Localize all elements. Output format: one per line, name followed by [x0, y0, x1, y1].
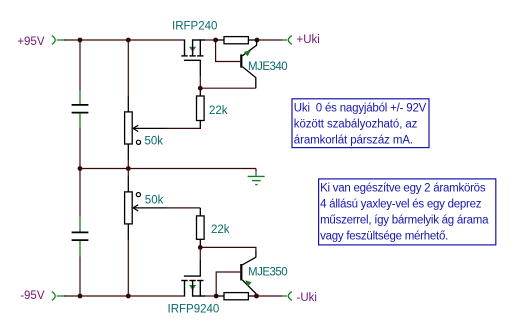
- svg-text:Ki van egészítve egy 2 áramkör: Ki van egészítve egy 2 áramkörös: [320, 182, 486, 194]
- transistor Q1 IRFP240 MOSFET: [181, 39, 205, 60]
- svg-text:vagy feszültsége mérhető.: vagy feszültsége mérhető.: [320, 231, 448, 243]
- potentiometer 50k upper: [125, 96, 167, 160]
- wire wiper lower to 22k: [167, 207, 201, 209]
- node bottom rail / capacitor: [78, 294, 83, 299]
- wire mosfet lower to sense resistor: [205, 295, 216, 297]
- wire capacitor branch upper: [79, 40, 81, 90]
- wire gate lead upper: [199, 60, 201, 88]
- svg-text:22k: 22k: [209, 105, 228, 117]
- label IRFP9240: [168, 304, 220, 316]
- wire +95V top rail: [64, 39, 185, 41]
- terminal +Uki: [288, 36, 291, 45]
- terminal -Uki: [288, 292, 291, 301]
- node sense upper left: [213, 38, 218, 43]
- node sense lower left: [214, 294, 219, 299]
- wire capacitor C1 to mid rail: [79, 128, 81, 169]
- svg-text:MJE340: MJE340: [248, 61, 287, 73]
- node mid rail / pot: [126, 166, 131, 171]
- label 22k lower: [211, 224, 230, 236]
- svg-text:áramkorlát párszáz mA.: áramkorlát párszáz mA.: [294, 135, 413, 147]
- resistor 22k upper: [197, 88, 205, 129]
- wire pot upper bottom to mid rail: [127, 160, 129, 169]
- label MJE350: [248, 267, 287, 279]
- ground symbol: [248, 169, 265, 185]
- potentiometer 50k lower: [125, 169, 167, 297]
- wire gate lead lower: [199, 247, 201, 276]
- svg-text:4 állású yaxley-vel és egy dep: 4 állású yaxley-vel és egy deprez: [320, 199, 482, 211]
- wire collector MJE340 to gate node: [200, 87, 256, 89]
- svg-text:között szabályozható, az: között szabályozható, az: [294, 119, 418, 131]
- node bottom rail / pot: [126, 294, 131, 299]
- net -95V label: [20, 290, 45, 302]
- capacitor C1: [72, 90, 89, 128]
- net +95V label: [17, 36, 45, 48]
- transistor Q3 IRFP9240 MOSFET: [181, 276, 205, 297]
- svg-text:IRFP9240: IRFP9240: [168, 304, 220, 316]
- transistor Q4 MJE350: [240, 251, 256, 296]
- svg-text:50k: 50k: [145, 195, 164, 207]
- svg-text:22k: 22k: [211, 224, 230, 236]
- label 22k upper: [209, 105, 228, 117]
- net -Uki label: [297, 292, 317, 304]
- wire base MJE340: [216, 40, 241, 62]
- capacitor C2: [72, 169, 89, 297]
- node sense lower right: [254, 294, 259, 299]
- label 50k upper: [145, 135, 164, 147]
- node top rail / capacitor branch: [78, 38, 83, 43]
- svg-text:műszerrel, így bármelyik ág ár: műszerrel, így bármelyik ág árama: [320, 215, 489, 227]
- node gate upper junction: [198, 86, 203, 91]
- terminal +95V: [52, 36, 65, 45]
- wire pot upper top lead: [127, 40, 129, 96]
- svg-text:50k: 50k: [145, 135, 164, 147]
- node top rail / pot branch: [126, 38, 131, 43]
- label MJE340: [248, 61, 287, 73]
- wire to -Uki terminal: [257, 295, 288, 297]
- transistor Q2 MJE340: [240, 40, 256, 88]
- resistor sense upper: [216, 37, 257, 44]
- svg-text:IRFP240: IRFP240: [172, 20, 217, 32]
- svg-text:+95V: +95V: [17, 36, 45, 48]
- terminal -95V: [52, 292, 65, 301]
- resistor 22k lower: [197, 208, 205, 248]
- wire wiper upper to 22k: [167, 127, 201, 129]
- svg-text:-95V: -95V: [20, 290, 45, 302]
- node mid rail / capacitor: [78, 166, 83, 171]
- wire mosfet upper source to sense resistor: [205, 39, 216, 41]
- wire mid rail: [80, 168, 256, 170]
- note box 2: [319, 179, 496, 245]
- node gate lower junction: [198, 245, 203, 250]
- wire collector MJE350 to gate node: [200, 247, 256, 251]
- wire base MJE350: [216, 272, 240, 296]
- svg-text:+Uki: +Uki: [297, 34, 320, 46]
- net +Uki label: [297, 34, 320, 46]
- svg-text:-Uki: -Uki: [297, 292, 317, 304]
- label 50k lower: [145, 195, 164, 207]
- note box 1: [292, 99, 429, 148]
- svg-text:Uki 0 és nagyjából +/- 92V: Uki 0 és nagyjából +/- 92V: [294, 103, 427, 115]
- label IRFP240: [172, 20, 217, 32]
- node sense upper right: [255, 38, 260, 43]
- wire to +Uki terminal: [257, 39, 287, 41]
- wire -95V bottom rail: [64, 295, 185, 297]
- svg-text:MJE350: MJE350: [248, 267, 287, 279]
- resistor sense lower: [216, 293, 256, 300]
